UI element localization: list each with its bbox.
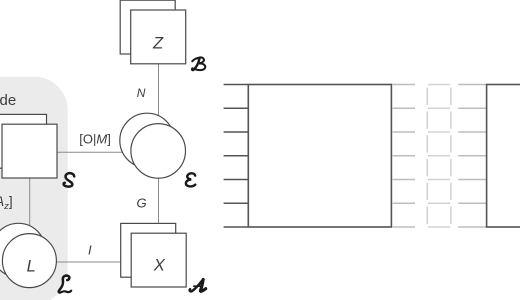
plate (gray rounded region) [0, 77, 68, 300]
wire L-X with label I [56, 261, 120, 263]
wire Z-E with label N [158, 64, 160, 117]
script E label [186, 173, 195, 186]
script A label [190, 279, 206, 291]
svg-text:N: N [137, 86, 146, 100]
script L label [59, 276, 72, 293]
input ticks (dark, left of big matrix) [224, 85, 249, 228]
svg-text:G: G [137, 196, 147, 211]
wire S-L [29, 177, 31, 226]
right matrix rectangle (truncated at right edge) [487, 85, 520, 228]
script B label [192, 57, 205, 70]
node L (stacked circles, truncated at left) [0, 223, 56, 287]
dashed cell column: horizontal dashes [428, 85, 450, 228]
light ticks left of right matrix [458, 85, 486, 228]
light ticks right of big matrix [392, 85, 415, 228]
svg-text:X: X [153, 256, 166, 274]
svg-text:I: I [88, 243, 92, 258]
wire S-E [57, 151, 122, 153]
script S label [64, 173, 75, 186]
node E (stacked circles) [120, 113, 186, 178]
svg-text:[O|M]: [O|M] [79, 132, 111, 147]
big matrix rectangle [248, 85, 391, 228]
dashed cell column: vertical dashes [427, 88, 451, 224]
wire E-X with label G [158, 178, 160, 223]
svg-text:de: de [0, 92, 16, 109]
node S (stacked squares, truncated at left) [0, 114, 57, 178]
node X (stacked squares) [121, 223, 187, 287]
svg-text:L: L [27, 258, 36, 276]
svg-text:Z: Z [152, 34, 164, 52]
node Z (stacked squares) [120, 0, 186, 64]
